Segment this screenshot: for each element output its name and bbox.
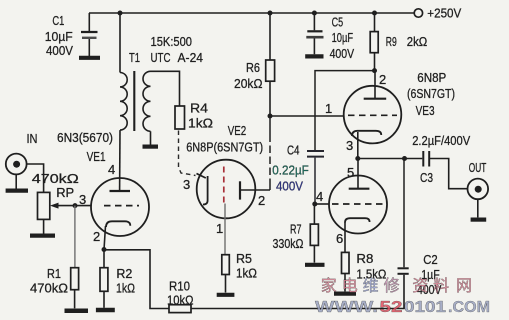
pin 3 label VE2 xyxy=(183,177,190,192)
pin 2 label VE2 xyxy=(258,193,265,208)
svg-text:R5: R5 xyxy=(236,251,252,266)
svg-text:2: 2 xyxy=(258,193,265,208)
wiper arrow RP xyxy=(50,203,75,209)
ground under R1 xyxy=(65,308,89,313)
svg-text:2.2µF/400V: 2.2µF/400V xyxy=(412,133,470,148)
capacitor C3 xyxy=(423,151,429,167)
tube VE3 upper grid xyxy=(348,114,397,116)
wire IN jack to RP top xyxy=(27,164,44,192)
svg-text:C5: C5 xyxy=(332,15,344,30)
label C1 value xyxy=(45,13,74,58)
svg-text:R2: R2 xyxy=(116,266,132,281)
potentiometer RP xyxy=(32,171,79,219)
wire VE1 grid to wiper node xyxy=(75,205,92,207)
svg-text:VE2: VE2 xyxy=(228,123,247,138)
pin 4 label VE3 lower xyxy=(316,189,323,204)
svg-text:4: 4 xyxy=(316,189,323,204)
svg-text:R10: R10 xyxy=(169,279,190,294)
svg-text:(6SN7GT): (6SN7GT) xyxy=(407,86,455,101)
label T1 ratio xyxy=(129,34,203,65)
pin 6 label VE3 lower xyxy=(336,231,343,246)
wire R5 to ground xyxy=(225,275,227,293)
capacitor C2 xyxy=(398,268,409,274)
wire rail to R6 xyxy=(269,13,271,60)
svg-text:R1: R1 xyxy=(47,266,61,281)
wire R10 to C2 bottom xyxy=(191,275,404,309)
svg-text:52: 52 xyxy=(380,299,403,316)
wire VE1 cathode pin 2 xyxy=(104,226,106,250)
svg-text:R9: R9 xyxy=(386,34,397,49)
svg-text:6N8P: 6N8P xyxy=(417,70,446,85)
pin 1 label VE3 upper xyxy=(325,101,332,116)
svg-text:R4: R4 xyxy=(190,101,208,116)
ground under OUT jack xyxy=(471,218,487,222)
label VE3 type xyxy=(407,70,455,118)
wire R2 to ground xyxy=(103,291,105,308)
pin 1 label VE2 xyxy=(216,221,223,236)
svg-text:10µF: 10µF xyxy=(45,29,73,44)
tube VE1 plate xyxy=(110,190,131,192)
watermark text line 2 xyxy=(315,299,490,316)
transformer T1 primary winding xyxy=(120,73,127,131)
svg-text:3: 3 xyxy=(346,138,353,153)
wire rail to transformer primary xyxy=(119,13,121,73)
wire VE2 plate riser to R6 node xyxy=(269,116,271,190)
wire R7 to ground xyxy=(313,245,315,262)
tube VE3 upper plate xyxy=(364,71,387,99)
resistor R8 xyxy=(342,251,387,282)
svg-text:1kΩ: 1kΩ xyxy=(116,281,135,296)
wire R1 to ground xyxy=(74,290,76,309)
svg-text:15K:500: 15K:500 xyxy=(151,34,193,49)
svg-text:0.22µF: 0.22µF xyxy=(272,163,309,178)
ground under RP xyxy=(30,234,55,238)
label VE1 type xyxy=(57,130,113,164)
tube VE3 lower cathode xyxy=(345,218,370,222)
tube VE1 envelope xyxy=(91,178,149,236)
pin 3 label VE1 xyxy=(79,192,86,207)
svg-text:5: 5 xyxy=(347,165,354,180)
node rail-R9 junction xyxy=(372,11,377,16)
wire VE2 pin1 to R5 xyxy=(224,204,226,255)
svg-text:6N3(5670): 6N3(5670) xyxy=(57,130,113,145)
resistor R7 xyxy=(273,204,319,251)
ground under R2 xyxy=(96,308,115,313)
svg-text:RP: RP xyxy=(56,185,74,200)
wire secondary top to R4 xyxy=(151,71,180,106)
wire secondary bottom to ground xyxy=(150,131,152,144)
node VE1 grid junction xyxy=(73,203,78,208)
svg-text:2: 2 xyxy=(93,229,100,244)
svg-text:T1: T1 xyxy=(129,50,140,65)
ground under C1 xyxy=(79,56,100,60)
tube VE2 cathode xyxy=(197,174,208,205)
svg-text:IN: IN xyxy=(27,131,38,146)
ground under C5 xyxy=(305,54,323,58)
wire C4 branch from plate node xyxy=(315,71,375,150)
svg-text:C1: C1 xyxy=(52,13,64,28)
pin 2 label VE3 upper xyxy=(379,72,386,87)
svg-text:470kΩ: 470kΩ xyxy=(30,281,68,296)
ground under R7 xyxy=(305,263,325,267)
svg-text:1: 1 xyxy=(216,221,223,236)
svg-text:4: 4 xyxy=(108,162,115,177)
svg-text:6: 6 xyxy=(336,231,343,246)
wire R6 node to VE3 upper grid xyxy=(270,115,344,117)
svg-text:OUT: OUT xyxy=(469,160,487,175)
node SRPP output junction xyxy=(355,156,360,161)
svg-text:2kΩ: 2kΩ xyxy=(407,34,428,49)
resistor R4 xyxy=(175,101,213,131)
svg-text:VE3: VE3 xyxy=(416,103,435,118)
tube VE2 envelope xyxy=(197,160,256,219)
svg-text:VE1: VE1 xyxy=(87,149,106,164)
tube VE1 grid xyxy=(104,205,139,207)
wire RP bottom to ground xyxy=(43,219,45,233)
capacitor C5 xyxy=(306,13,323,54)
wire VE3 lower cathode to R8 xyxy=(344,222,346,252)
wire cathode node to R2 xyxy=(103,250,105,268)
wire IN jack to ground xyxy=(15,174,17,188)
wire OUT jack to ground xyxy=(477,199,479,217)
wire tap node to C2 xyxy=(403,159,405,268)
pin 4 label VE1 xyxy=(108,162,115,177)
tube VE3 lower plate xyxy=(349,159,370,189)
svg-text:.COM: .COM xyxy=(448,299,490,316)
node C2 tap junction xyxy=(402,156,407,161)
resistor R1 xyxy=(30,266,79,296)
resistor R5 xyxy=(222,251,257,281)
tube VE1 cathode xyxy=(106,221,130,227)
svg-text:C2: C2 xyxy=(423,252,438,267)
wire feedback cathode to R10 xyxy=(104,250,169,309)
wire R9 to plate node xyxy=(374,53,376,71)
jack OUT xyxy=(468,160,489,199)
wire dashed R4 to VE2 cathode pin 3 xyxy=(179,131,196,176)
svg-text:330kΩ: 330kΩ xyxy=(273,236,304,251)
node VE1 cathode junction xyxy=(102,247,107,252)
wire C3 to OUT jack xyxy=(429,159,467,189)
node rail-C5 junction xyxy=(312,11,317,16)
label C5 value xyxy=(330,15,355,62)
tube VE3 upper envelope xyxy=(344,86,402,144)
capacitor C1 xyxy=(81,13,98,56)
svg-text:A-24: A-24 xyxy=(178,50,204,65)
wire grid node down to R1 xyxy=(74,206,76,268)
jack IN xyxy=(6,131,38,174)
svg-text:20kΩ: 20kΩ xyxy=(234,76,263,91)
wire top supply rail xyxy=(89,12,414,14)
pin 2 label VE1 xyxy=(93,229,100,244)
node rail-R6 junction xyxy=(268,11,273,16)
svg-text:10µF: 10µF xyxy=(332,30,354,45)
svg-text:C3: C3 xyxy=(420,170,433,185)
wire primary bottom to VE1 plate xyxy=(119,130,121,191)
tube VE3 upper cathode xyxy=(352,131,381,136)
wire R6 to node xyxy=(269,81,271,116)
svg-text:UTC: UTC xyxy=(151,50,171,65)
svg-text:1kΩ: 1kΩ xyxy=(188,116,213,131)
svg-text:10kΩ: 10kΩ xyxy=(167,293,194,308)
svg-text:1: 1 xyxy=(325,101,332,116)
pin 3 label VE3 upper xyxy=(346,138,353,153)
label C2 value xyxy=(417,252,442,297)
terminal +250V xyxy=(414,6,461,21)
svg-text:400V: 400V xyxy=(46,43,73,58)
ground under T1 secondary xyxy=(143,145,159,149)
tube VE3 lower grid xyxy=(332,203,386,205)
svg-text:470kΩ: 470kΩ xyxy=(32,171,79,186)
svg-text:0101: 0101 xyxy=(404,299,446,316)
wire VE3 upper cathode to SRPP node xyxy=(357,132,359,159)
ground under R5 xyxy=(217,293,235,297)
ground under IN jack xyxy=(6,189,28,193)
svg-text:400V: 400V xyxy=(330,46,355,61)
tube VE2 plate xyxy=(240,181,270,199)
svg-text:2: 2 xyxy=(379,72,386,87)
svg-text:400V: 400V xyxy=(276,179,303,194)
tube VE3 lower envelope xyxy=(329,176,387,234)
resistor R10 xyxy=(167,279,194,313)
label VE2 type xyxy=(186,123,263,155)
svg-text:C4: C4 xyxy=(287,143,300,158)
transformer T1 core xyxy=(133,71,135,131)
label C3 coupling value xyxy=(412,133,470,148)
svg-text:R8: R8 xyxy=(356,251,373,266)
tube VE2 grid xyxy=(223,167,225,204)
svg-text:3: 3 xyxy=(183,177,190,192)
wire SRPP node to C3 xyxy=(358,158,423,160)
label C4 value xyxy=(272,143,309,194)
wire R8 to ground xyxy=(344,274,346,292)
capacitor C4 xyxy=(307,151,324,204)
svg-text:6N8P(6SN7GT): 6N8P(6SN7GT) xyxy=(186,141,263,155)
watermark text line 1 xyxy=(321,277,472,295)
svg-text:3: 3 xyxy=(79,192,86,207)
node VE3 plate junction xyxy=(372,68,377,73)
svg-text:+250V: +250V xyxy=(427,6,461,21)
svg-text:R6: R6 xyxy=(246,60,260,75)
svg-text:R7: R7 xyxy=(290,222,302,237)
resistor R6 xyxy=(234,60,275,91)
node rail-T1 junction xyxy=(118,11,123,16)
node C4 R7 grid junction xyxy=(312,202,317,207)
svg-text:WWW.: WWW. xyxy=(315,299,378,316)
transformer T1 secondary winding xyxy=(143,71,151,131)
label C3 xyxy=(420,170,433,185)
resistor R9 xyxy=(370,13,427,53)
wire node to VE3 lower grid xyxy=(315,203,330,205)
ground under R8 xyxy=(334,292,356,296)
pin 5 label VE3 lower xyxy=(347,165,354,180)
svg-text:1kΩ: 1kΩ xyxy=(236,266,257,281)
node R6 plate junction xyxy=(268,114,273,119)
resistor R2 xyxy=(100,266,135,296)
